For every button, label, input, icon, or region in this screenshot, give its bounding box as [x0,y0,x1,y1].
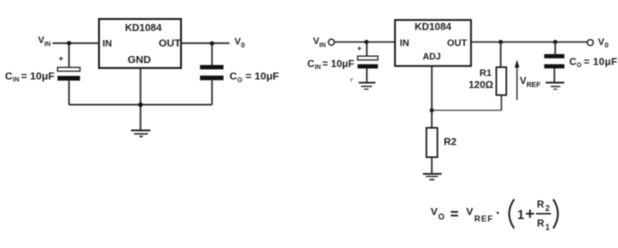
resistor R2 body [426,128,437,157]
svg-text:OUT: OUT [447,38,467,49]
svg-text:IN: IN [315,64,322,71]
wire GND pin down through rail [140,68,142,130]
ground symbol R2 [423,174,442,181]
svg-text:= 10μF: = 10μF [584,57,618,68]
svg-text:KD1084: KD1084 [415,22,452,33]
CIN value label [5,70,55,83]
VREF annotation arrow [515,60,520,100]
svg-text:O: O [237,77,242,84]
svg-text:R1: R1 [480,68,493,79]
wire OUT pin to output terminal [471,41,587,43]
svg-text:= 10μF: = 10μF [322,59,354,70]
wire adj junction to R1 bottom [432,109,502,111]
plus polarity mark CIN [358,47,362,51]
capacitor CO plates [200,65,224,80]
svg-text:C: C [569,57,576,68]
input terminal circle [328,39,334,45]
wire CO to ground [553,68,555,81]
svg-text:0: 0 [241,43,245,50]
capacitor CIN plates [358,56,378,68]
svg-text:IN: IN [319,42,326,49]
capacitor CO plates [544,54,564,68]
junction dot at CIN tap [364,40,368,44]
CO value label [230,71,280,84]
wire R1 bottom to adj net [500,95,502,110]
svg-text:2: 2 [545,204,550,213]
svg-text:REF: REF [527,82,542,89]
svg-text:ADJ: ADJ [423,52,441,62]
plus polarity mark CIN [59,57,63,61]
svg-text:C: C [5,70,13,82]
svg-text:0: 0 [605,43,609,50]
svg-text:OUT: OUT [159,38,182,50]
svg-text:1: 1 [517,208,524,222]
svg-text:R2: R2 [444,137,457,148]
junction dot on rail [138,102,143,107]
svg-text:GND: GND [128,54,152,66]
wire junction down to CIN [68,43,70,67]
node VIN label [313,36,326,49]
svg-text:IN: IN [400,38,410,49]
svg-text:C: C [230,71,238,83]
scan noise speck [351,79,353,83]
junction dot at CO tap [210,41,214,45]
CO value label [569,57,617,69]
svg-text:O: O [438,213,444,222]
wire OUT pin to VO [181,42,230,44]
svg-text:REF: REF [474,214,493,224]
wire terminal to IN pin [335,41,395,43]
wire junction down to CO [554,42,556,54]
regulator U2 box KD1084 [395,20,471,66]
ground symbol CIN [359,83,376,90]
svg-text:= 10μF: = 10μF [246,71,280,83]
svg-text:R: R [537,200,545,211]
capacitor CIN plates [58,67,81,80]
svg-text:120Ω: 120Ω [469,80,494,91]
formula VO = VREF (1 + R2/R1) [431,199,558,232]
svg-text:V: V [466,206,473,218]
VREF annotation label [520,76,541,89]
ground symbol CO [546,83,564,90]
svg-text:= 10μF: = 10μF [21,70,55,82]
ground rail wire [69,104,212,106]
node VO label [598,37,609,50]
svg-text:IN: IN [103,39,113,50]
junction dot on adj net [430,108,434,112]
svg-text:R: R [537,219,545,230]
wire junction down to CIN [366,42,368,56]
wire R2 to ground [431,157,433,173]
wire junction down to R1 [500,42,502,67]
wire junction down to CO [211,43,213,65]
svg-text:C: C [307,59,314,70]
svg-text:IN: IN [13,77,20,84]
wire CO to ground rail [211,80,213,105]
junction dot at CO tap [553,40,557,44]
junction dot at R1 tap [499,40,503,44]
ground symbol [131,130,151,137]
svg-text:IN: IN [44,41,51,48]
output terminal circle [587,40,593,46]
wire VIN to IN pin [53,42,100,44]
wire CIN to ground [366,69,368,82]
regulator U1 box KD1084 [99,19,181,68]
wire ADJ pin down [431,66,433,128]
wire CIN to ground rail [68,81,70,105]
CIN value label [307,59,354,71]
svg-text:1: 1 [545,223,550,232]
resistor R1 body [496,67,506,95]
node VO label [235,37,246,50]
node VIN label [38,35,51,48]
svg-text:V: V [431,206,438,218]
svg-text:O: O [577,62,582,69]
svg-text:KD1084: KD1084 [125,23,162,34]
junction dot at CIN tap [67,41,71,45]
